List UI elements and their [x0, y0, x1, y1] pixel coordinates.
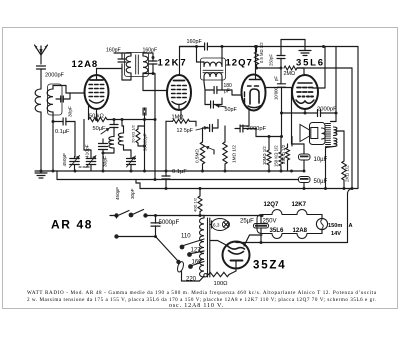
bus 2 — [57, 179, 299, 181]
svg-text:410pF: 410pF — [85, 144, 91, 158]
svg-text:0.1µF: 0.1µF — [55, 129, 70, 135]
junction — [280, 67, 283, 70]
wire 2M right to grid — [297, 67, 304, 69]
wire IFT1 prim bottom — [130, 73, 132, 80]
wire screen bus down — [154, 120, 156, 180]
wire OT bottom — [326, 147, 334, 148]
svg-text:12K7: 12K7 — [158, 58, 188, 69]
voltage tap 160 — [188, 264, 193, 269]
wire diode tap — [204, 90, 206, 105]
resistor 1M AVC — [173, 119, 190, 123]
wire 160pF top link — [114, 52, 122, 54]
svg-text:12Q7: 12Q7 — [264, 201, 280, 208]
wire L4 top — [123, 126, 125, 133]
wire plate to IFT2 — [180, 46, 197, 48]
wire 0.1uF to tuning cap — [74, 122, 76, 157]
svg-text:50 kΩ: 50 kΩ — [89, 114, 104, 120]
svg-text:12K7: 12K7 — [292, 201, 307, 208]
junction — [113, 118, 116, 121]
wire mains left — [110, 215, 117, 217]
capacitor 5000pF — [151, 222, 160, 224]
junction — [261, 214, 264, 217]
wire 20k/cap join — [138, 125, 145, 127]
arrow padder — [127, 156, 136, 167]
junction — [260, 241, 263, 244]
svg-text:2KΩ 1/2: 2KΩ 1/2 — [345, 165, 350, 182]
junction — [224, 170, 227, 173]
OT secondary a — [334, 127, 337, 136]
trimmer 30pF osc — [99, 143, 108, 145]
svg-text:250V: 250V — [263, 219, 277, 225]
svg-text:150 KΩ 1/2: 150 KΩ 1/2 — [274, 145, 279, 167]
svg-text:250pF: 250pF — [269, 54, 274, 66]
wire 410pF top — [90, 150, 92, 157]
arrow pot tap — [206, 147, 215, 151]
junction — [102, 152, 105, 155]
junction — [280, 135, 283, 138]
junction — [195, 45, 198, 48]
ground top — [304, 47, 306, 51]
wire switch to bus — [146, 215, 263, 217]
wire to selector — [156, 237, 179, 262]
junction — [322, 45, 325, 48]
svg-text:pF: pF — [274, 76, 279, 81]
wire 100ohm leads — [207, 274, 208, 277]
resistor 150K — [279, 152, 283, 166]
rail screen right — [351, 68, 353, 189]
resistor 1M half — [223, 142, 227, 164]
svg-text:20 KΩ 1/2: 20 KΩ 1/2 — [131, 124, 136, 143]
wire IFT1 sec bottom — [142, 73, 144, 91]
capacitor 0.1uF AVC — [62, 118, 64, 125]
voltage tap 127 — [187, 252, 192, 257]
svg-text:35L6: 35L6 — [296, 58, 325, 69]
wire antenna cap to coil — [40, 69, 42, 89]
wire 12A8 bottom right — [96, 109, 98, 120]
wire 50pF right — [219, 104, 222, 106]
wire AF bus — [257, 67, 282, 69]
bus3 left hook — [136, 180, 140, 189]
wire IFT2 sec leads — [203, 77, 205, 82]
junction — [199, 214, 202, 217]
junction — [303, 187, 306, 190]
wire L4 bottom — [123, 145, 125, 150]
wire IFT1 prim top — [130, 53, 132, 56]
capacitor 2000pF tone — [317, 110, 319, 117]
wire 12K7 plate up — [179, 47, 181, 76]
junction — [154, 118, 157, 121]
wire coupling right — [249, 128, 256, 130]
tube 12A8 U1 — [85, 75, 109, 109]
capacitor 180pF — [213, 87, 215, 94]
junction — [102, 170, 105, 173]
svg-text:A: A — [349, 223, 353, 229]
junction — [268, 170, 271, 173]
svg-text:160pF: 160pF — [187, 39, 203, 45]
capacitor 25uF — [254, 224, 269, 229]
wire 12Q7 top — [255, 47, 257, 80]
wire L1 to ground bus — [40, 112, 42, 171]
svg-text:osc. 12A8 110 V.: osc. 12A8 110 V. — [169, 303, 223, 309]
wire xfmr top — [200, 215, 204, 217]
gang link dashes — [79, 166, 90, 168]
resistor 40ohm — [198, 196, 202, 212]
junction — [280, 170, 283, 173]
speaker cone — [300, 125, 310, 142]
IFT2 secondary — [204, 73, 222, 77]
junction — [143, 170, 146, 173]
variable capacitor 410pF osc — [86, 158, 96, 160]
svg-text:450pF: 450pF — [62, 153, 68, 167]
wire lamp top — [211, 221, 213, 228]
tube 12K7 U2 — [167, 75, 191, 110]
svg-text:14V: 14V — [331, 231, 341, 237]
capacitor 160pF top — [204, 43, 206, 50]
junction 160pF bottom — [152, 72, 155, 75]
wire fil right — [244, 235, 262, 246]
junction — [130, 170, 133, 173]
svg-text:0.5 MΩ 1/2: 0.5 MΩ 1/2 — [259, 42, 264, 63]
svg-text:30pF: 30pF — [68, 106, 74, 117]
svg-text:2MΩ: 2MΩ — [284, 71, 296, 77]
selector arm — [176, 260, 180, 264]
capacitor 2000pF antenna — [37, 65, 46, 67]
junction — [290, 170, 293, 173]
wire 35L6 plate down — [304, 109, 306, 113]
voltage tap 220 — [204, 274, 207, 277]
junction — [199, 187, 202, 190]
resistor 10M — [267, 150, 271, 165]
IFT1 box — [125, 53, 149, 77]
wire 12A8 anode top — [96, 69, 98, 81]
wire fil left — [210, 241, 228, 247]
svg-text:110: 110 — [181, 234, 191, 240]
osc coil L4 — [118, 133, 123, 145]
svg-text:30pF: 30pF — [130, 188, 135, 199]
wire bus right — [281, 46, 358, 48]
svg-text:0.5MΩ: 0.5MΩ — [195, 149, 200, 163]
junction — [165, 170, 168, 173]
junction L2/0.1uF — [52, 120, 55, 123]
junction — [201, 170, 204, 173]
resistor 250ohm — [286, 148, 290, 161]
svg-text:35L6: 35L6 — [270, 227, 285, 234]
speaker body — [310, 123, 326, 145]
tube 12Q7 U3 — [242, 75, 266, 111]
junction — [143, 118, 146, 121]
heater chain top — [262, 210, 322, 215]
svg-text:35Z4: 35Z4 — [253, 260, 286, 272]
wire 12Q7 cathode — [248, 111, 250, 127]
switch S1 — [114, 213, 118, 217]
junction — [254, 45, 257, 48]
junction — [260, 214, 263, 217]
capacitor 50pF — [210, 101, 212, 108]
variable capacitor padder — [127, 158, 136, 160]
IFT1 core — [135, 55, 137, 74]
wire OT top — [331, 121, 337, 123]
antenna — [40, 46, 42, 55]
wire 150K top — [280, 137, 282, 147]
svg-text:12A8: 12A8 — [72, 59, 99, 70]
capacitor 50uF — [299, 177, 311, 183]
wire screen drop — [153, 73, 155, 75]
junction — [154, 235, 157, 238]
voltage tap 110 — [180, 245, 185, 250]
wire selector down — [181, 272, 183, 282]
junction — [351, 187, 354, 190]
svg-text:50pF: 50pF — [225, 107, 238, 113]
svg-text:WATT RADIO - Mod. AR 48 - Gamm: WATT RADIO - Mod. AR 48 - Gamma medie da… — [27, 289, 377, 296]
svg-text:40Ω 1/2: 40Ω 1/2 — [193, 197, 198, 212]
wire screen step — [313, 87, 326, 89]
svg-text:12 5pF: 12 5pF — [177, 128, 194, 134]
junction — [152, 56, 155, 59]
ground symbol left — [40, 171, 42, 172]
capacitor 50000pF osc — [142, 108, 144, 115]
svg-text:50µF: 50µF — [314, 179, 328, 185]
capacitor 160pF right — [149, 60, 157, 62]
capacitor 250pF — [277, 55, 285, 57]
junction — [143, 145, 146, 148]
transformer core — [207, 218, 209, 277]
junction — [268, 135, 271, 138]
svg-text:150m: 150m — [328, 223, 342, 229]
junction — [154, 178, 157, 181]
antenna coil secondary L2 — [47, 89, 53, 112]
wire B+ descender — [348, 189, 353, 194]
svg-text:2000pF: 2000pF — [317, 107, 337, 113]
wire OT feed — [335, 47, 337, 114]
voice coil — [322, 128, 326, 139]
rail B+ right — [357, 47, 359, 189]
svg-text:50µF: 50µF — [93, 126, 106, 132]
svg-text:AR 48: AR 48 — [51, 218, 93, 232]
resistor 50k — [89, 117, 108, 121]
arrow 410pF — [86, 156, 96, 168]
heater chain bottom — [262, 234, 322, 239]
junction — [40, 170, 43, 173]
svg-text:10MΩ 1/2: 10MΩ 1/2 — [262, 146, 267, 165]
wire trimmer right — [69, 93, 71, 99]
capacitor 0.1uF bus — [162, 175, 170, 177]
arrow 50uF — [101, 128, 110, 134]
junction — [154, 214, 157, 217]
tube 35L6 U4 — [292, 75, 318, 109]
wire k bus — [107, 119, 155, 121]
junction 10uF — [303, 170, 306, 173]
arrow 12.5pF — [196, 127, 208, 130]
ballast lamp 150mA — [316, 218, 327, 229]
antenna coil primary L1 — [35, 89, 41, 112]
svg-text:220: 220 — [186, 277, 197, 283]
IFT1 secondary — [143, 56, 148, 73]
resistor 2K — [342, 161, 346, 180]
capacitor 160pF left — [118, 58, 126, 60]
wire plate lead — [235, 261, 237, 271]
junction — [335, 112, 338, 115]
svg-text:2000pF: 2000pF — [45, 73, 65, 79]
svg-text:12Q7: 12Q7 — [226, 58, 253, 69]
OT secondary b — [334, 138, 337, 147]
wire IFT2 prim leads — [197, 61, 205, 63]
trimmer 30pF antenna — [60, 96, 62, 102]
top bus wire — [180, 46, 205, 48]
wire OT sec tap — [336, 130, 344, 132]
capacitor 2000pF coupling — [239, 125, 241, 132]
IFT2 core — [203, 69, 223, 71]
junction — [121, 118, 124, 121]
svg-text:160: 160 — [192, 260, 203, 266]
wire mains bottom — [117, 236, 156, 238]
wire 12K7 cathode — [178, 105, 180, 111]
wire hop over — [281, 40, 305, 47]
svg-text:2 w. Massima tensione da 175 a: 2 w. Massima tensione da 175 a 155 V, pl… — [27, 297, 376, 303]
resistor 0.5M half — [255, 52, 259, 65]
capacitor 50uF — [110, 124, 118, 126]
junction — [255, 45, 258, 48]
IFT2 box — [201, 58, 226, 80]
resistor 100ohm — [209, 272, 230, 276]
tube 35Z4 U5 — [223, 242, 250, 269]
wire grid 35L6 riser — [268, 137, 270, 147]
junction — [74, 170, 77, 173]
wire L3 to 450pF — [113, 148, 115, 153]
junction — [165, 187, 168, 190]
svg-text:pF: pF — [224, 89, 230, 95]
wire 12A8 bottom left — [88, 106, 90, 120]
junction bottom — [95, 118, 98, 121]
autotransformer winding — [200, 218, 204, 277]
ground bus 1 — [35, 170, 304, 172]
capacitor 10000pF — [278, 83, 286, 85]
bus 3 — [140, 188, 358, 190]
svg-text:0.1µF: 0.1µF — [172, 169, 187, 175]
svg-text:100Ω: 100Ω — [214, 281, 229, 287]
capacitor 10uF — [299, 154, 311, 160]
wire grid 12A8 — [52, 86, 54, 90]
wire antenna lead-in — [40, 55, 42, 64]
svg-text:1MΩ: 1MΩ — [172, 115, 184, 121]
svg-text:12A8: 12A8 — [293, 227, 308, 234]
resistor 20K osc grid — [136, 129, 140, 143]
svg-text:10µF: 10µF — [314, 157, 328, 163]
IFT1 primary — [126, 56, 131, 73]
svg-text:6,3: 6,3 — [213, 223, 220, 228]
arrow 450pF — [70, 156, 80, 168]
junction — [52, 170, 55, 173]
variable capacitor 450pF RF — [70, 158, 80, 160]
volume pot 0.5M — [200, 142, 204, 164]
wire 12Q7 right lead — [265, 87, 292, 89]
IFT2 primary — [204, 62, 222, 66]
coil box — [48, 84, 63, 115]
B+ wire bottom — [236, 242, 348, 244]
arrow 50pF — [216, 106, 226, 108]
svg-text:5000pF: 5000pF — [159, 219, 180, 226]
svg-text:250 Ω 1/2: 250 Ω 1/2 — [281, 144, 286, 164]
svg-text:450pF: 450pF — [115, 187, 120, 200]
svg-text:25µF: 25µF — [240, 219, 254, 225]
heater chain left end — [257, 215, 262, 234]
wire sec to grid — [222, 89, 232, 91]
OT primary hatch — [326, 123, 331, 125]
wire 1M leads — [166, 120, 173, 122]
svg-text:127: 127 — [191, 248, 202, 254]
wire IFT1 sec top — [142, 53, 144, 56]
wire L2 bottom down — [52, 112, 54, 171]
osc coil L3 — [109, 137, 114, 149]
capacitor 12.5pF — [209, 125, 211, 132]
pilot lamp 6.3V — [212, 219, 229, 231]
svg-text:10’000: 10’000 — [274, 86, 279, 100]
svg-text:30pF: 30pF — [103, 156, 109, 167]
svg-text:1MΩ 1/2: 1MΩ 1/2 — [232, 145, 237, 163]
junction — [255, 67, 258, 70]
resistor 2M — [284, 66, 297, 70]
wire af bus right — [297, 67, 352, 69]
